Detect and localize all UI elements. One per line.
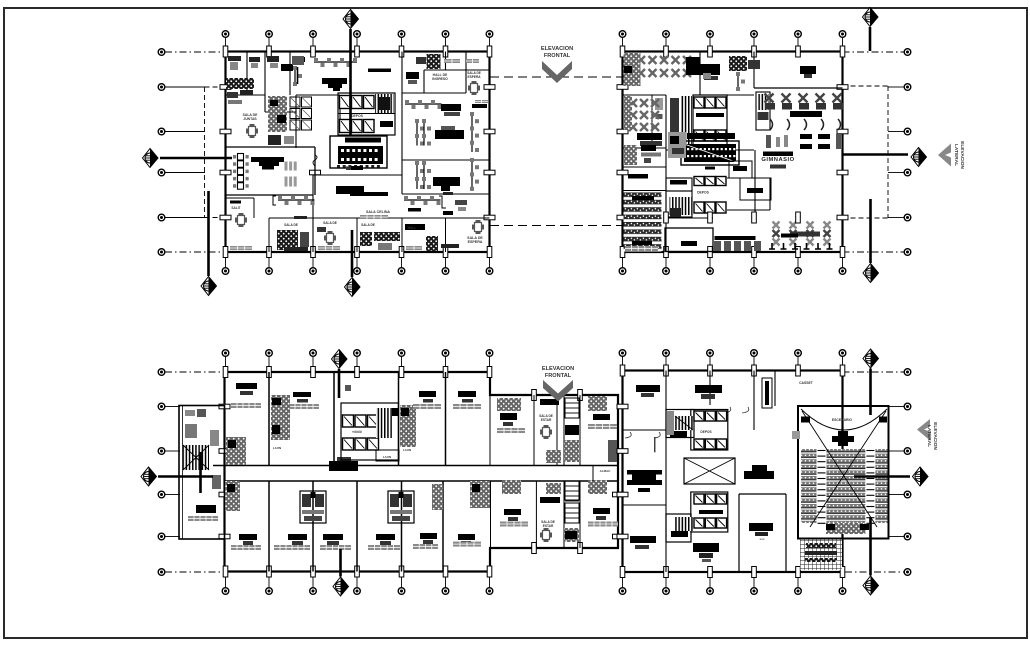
svg-text:SALA DE: SALA DE <box>361 223 375 227</box>
TL column grid <box>225 37 227 52</box>
BL wall ticks <box>223 367 228 378</box>
BL column grid <box>225 356 227 372</box>
TL wall ticks <box>223 46 228 57</box>
TR pool table <box>687 133 735 139</box>
TL top-left office desks <box>228 56 241 61</box>
svg-text:ESCENARIO: ESCENARIO <box>832 418 853 422</box>
BL outer walls <box>225 372 619 572</box>
TL central elevator core <box>338 93 395 135</box>
TR right gym equipment row1 <box>765 94 774 103</box>
svg-text:LATERAL: LATERAL <box>953 144 959 166</box>
BL diamonds <box>332 350 348 369</box>
BR right desk mid <box>752 465 767 471</box>
TL interior walls <box>246 52 248 96</box>
TR upper stair shaft <box>756 92 770 130</box>
svg-text:LAUN: LAUN <box>403 448 411 452</box>
svg-text:SALIT: SALIT <box>231 206 240 210</box>
BL lower band partitions <box>268 481 270 572</box>
BR auditorium stage <box>801 409 887 430</box>
TL conference room + table <box>330 136 387 168</box>
dashed links top <box>490 76 622 78</box>
BR auditorium seating <box>801 449 888 523</box>
TR right gym equipment row2 (weights) <box>800 134 812 139</box>
BL upper rooms furniture <box>236 383 257 389</box>
BR upper rooms <box>636 385 660 392</box>
BL upper band partitions <box>268 372 270 466</box>
BR core lower <box>691 492 728 532</box>
TL top-right offices <box>416 57 426 64</box>
TL stairs next to core <box>375 94 394 113</box>
svg-text:JUNTAS: JUNTAS <box>243 117 257 121</box>
svg-text:CASSET: CASSET <box>799 381 814 385</box>
TR interior walls <box>699 52 701 96</box>
BR diamonds <box>863 349 879 368</box>
svg-text:DEPOS: DEPOS <box>351 114 364 118</box>
TL row grid leaders <box>158 49 165 56</box>
svg-text:FRONTAL: FRONTAL <box>545 373 572 379</box>
BL annex interior: stairs etc <box>183 445 209 470</box>
BR auditorium shell <box>798 406 889 539</box>
svg-text:INGRESO: INGRESO <box>432 77 448 81</box>
svg-text:LATERAL: LATERAL <box>926 425 932 447</box>
TR outer walls <box>623 52 843 253</box>
svg-text:FRONTAL: FRONTAL <box>544 53 571 59</box>
BR core upper <box>666 410 694 438</box>
TL right offices: desks/cubicles <box>405 103 442 105</box>
TR row grid leaders <box>904 49 911 56</box>
svg-text:DEPOS: DEPOS <box>700 430 711 434</box>
TR wall ticks <box>620 46 625 57</box>
BR crossed floor rect <box>684 458 735 484</box>
svg-text:ESPERA: ESPERA <box>468 240 483 244</box>
TR restaurant 2 (mid-left) <box>629 99 637 107</box>
TR bottom band <box>665 228 713 252</box>
TL diamonds <box>343 10 359 29</box>
BR wall ticks <box>620 365 625 376</box>
TL mid rooms & bottom band <box>351 166 363 170</box>
BR interior walls <box>665 371 667 438</box>
TL left stairs/wc block <box>268 96 287 132</box>
TL meeting room left-bottom <box>238 154 244 161</box>
BL corridor-end room <box>592 466 594 482</box>
BR outer walls <box>623 371 843 573</box>
svg-text:ELEVACION: ELEVACION <box>932 422 938 450</box>
svg-text:«####: «#### <box>352 430 362 434</box>
BL left annex <box>179 406 225 540</box>
svg-text:xxx: xxx <box>759 537 764 541</box>
svg-text:LAUN: LAUN <box>383 455 391 459</box>
TL bottom small rooms content <box>230 201 241 204</box>
svg-text:ESTAR: ESTAR <box>543 524 554 528</box>
BL corridor reception desk <box>329 461 358 471</box>
svg-text:SALA DE: SALA DE <box>284 223 298 227</box>
TR right terrace plants <box>773 222 780 229</box>
TR left lounge + seating rows <box>624 145 637 165</box>
TR restaurant top-left: x-tables <box>637 56 645 64</box>
svg-text:ESTAR: ESTAR <box>541 418 552 422</box>
BR hatched block below auditorium <box>800 540 842 571</box>
BR row grid leaders <box>904 369 911 376</box>
TR dashed setback right <box>887 86 889 218</box>
BR bottom right room <box>749 523 773 531</box>
svg-text:ESPERA: ESPERA <box>467 75 481 79</box>
svg-text:HALL: HALL <box>408 226 417 230</box>
BR column grid <box>622 356 624 371</box>
TR central core <box>693 95 727 150</box>
TL reception desk + workstation row <box>295 57 305 62</box>
svg-text:ALMAC: ALMAC <box>600 469 612 473</box>
svg-text:ELEVACION: ELEVACION <box>541 46 573 52</box>
BR bottom center room <box>693 543 719 552</box>
svg-text:DEPOS: DEPOS <box>697 191 710 195</box>
BL row grid leaders <box>158 369 165 376</box>
TR top right room <box>800 66 816 74</box>
svg-text:GIMNASIO: GIMNASIO <box>761 157 794 163</box>
svg-text:SALA CELINA: SALA CELINA <box>366 210 390 214</box>
svg-text:ELEVACION: ELEVACION <box>959 141 965 169</box>
TL outer walls <box>226 52 490 253</box>
BL corridor <box>213 465 618 467</box>
svg-text:ELEVACION: ELEVACION <box>542 366 574 372</box>
TL dashed setback <box>204 87 206 218</box>
TR column grid <box>622 37 624 52</box>
BR left rooms desks <box>627 470 662 475</box>
BL lower rooms furniture <box>239 534 257 540</box>
svg-text:SALA DE: SALA DE <box>323 221 337 225</box>
svg-text:LAUN: LAUN <box>273 446 281 450</box>
TR small rooms center <box>666 178 692 191</box>
TR diamonds <box>863 8 879 27</box>
